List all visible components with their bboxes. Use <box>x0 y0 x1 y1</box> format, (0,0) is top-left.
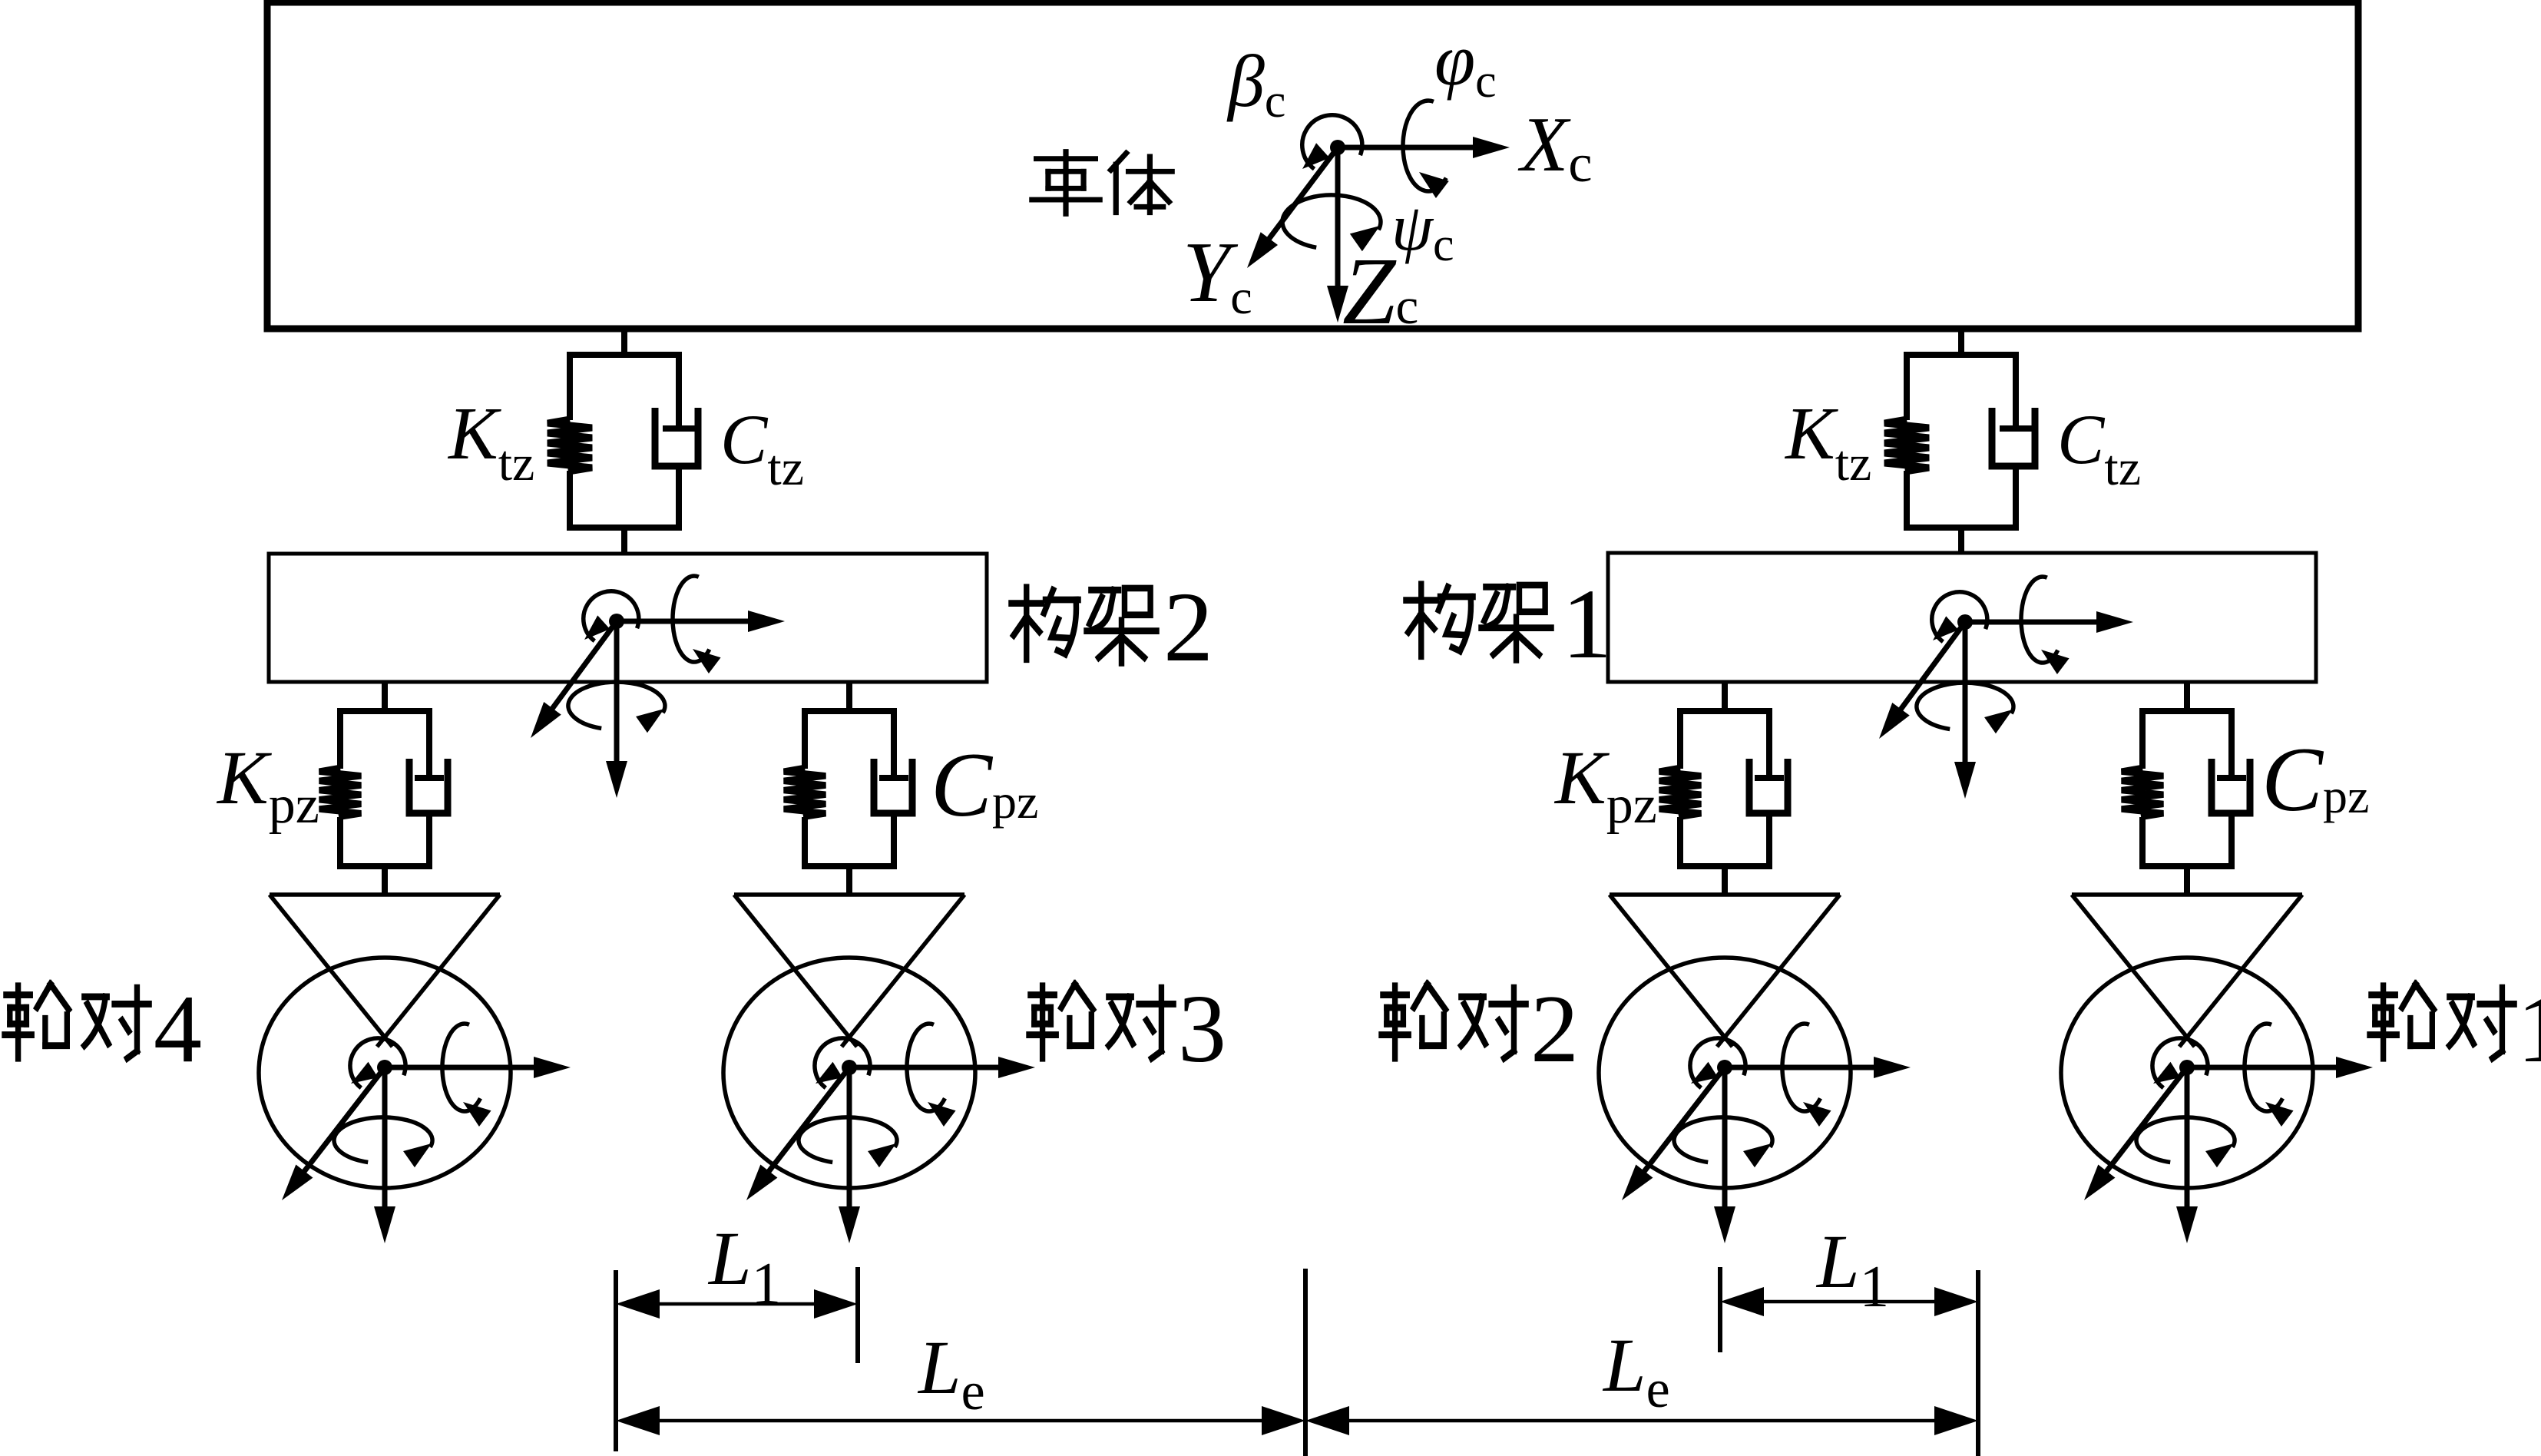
svg-text:2: 2 <box>1530 976 1579 1083</box>
svg-text:3: 3 <box>1178 976 1226 1083</box>
svg-text:1: 1 <box>2517 976 2541 1083</box>
svg-text:4: 4 <box>154 976 202 1083</box>
svg-text:2: 2 <box>1163 572 1213 683</box>
svg-text:1: 1 <box>1562 569 1612 680</box>
